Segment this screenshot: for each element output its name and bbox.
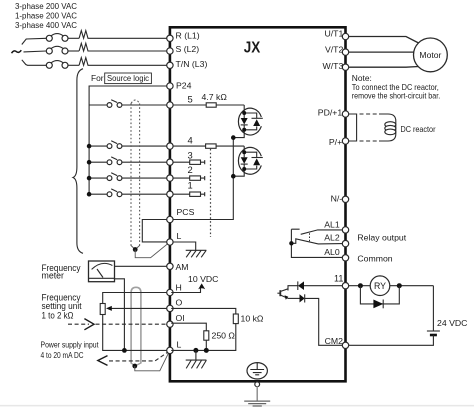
svg-text:CM2: CM2 bbox=[325, 336, 344, 346]
earth terminal circle bbox=[255, 382, 260, 387]
PCS to L link bar bbox=[142, 220, 168, 242]
svg-text:4 to 20 mA DC: 4 to 20 mA DC bbox=[41, 351, 84, 360]
wire W/T3 to motor bbox=[349, 66, 419, 69]
svg-text:1-phase 200 VAC: 1-phase 200 VAC bbox=[15, 12, 77, 21]
wire phase T input blade bbox=[22, 60, 46, 66]
wire phase R input blade bbox=[22, 38, 46, 44]
svg-text:N/-: N/- bbox=[331, 193, 343, 203]
opto-coupler PC1 bbox=[238, 108, 261, 135]
svg-text:S (L2): S (L2) bbox=[176, 44, 200, 54]
wire phase S input bbox=[24, 50, 47, 53]
fuse zigzag phase T bbox=[79, 58, 168, 66]
svg-text:AL2: AL2 bbox=[324, 233, 340, 243]
chassis ground at L1 bbox=[186, 250, 207, 257]
svg-text:O: O bbox=[176, 297, 183, 307]
svg-text:V/T2: V/T2 bbox=[325, 44, 344, 54]
svg-text:250 Ω: 250 Ω bbox=[212, 331, 236, 341]
internal 10k resistor from O bbox=[171, 308, 236, 314]
resistor R4 bbox=[171, 145, 205, 147]
dotted internal boundary line bbox=[210, 149, 212, 237]
breaker contact phase S bbox=[46, 48, 52, 54]
relay contact AL bbox=[301, 230, 343, 234]
shield 2 drain node bbox=[131, 363, 141, 366]
svg-text:AL1: AL1 bbox=[324, 219, 340, 229]
svg-text:P24: P24 bbox=[176, 80, 192, 90]
svg-text:setting unit: setting unit bbox=[42, 301, 83, 311]
opto-coupler PC2 bbox=[238, 147, 261, 174]
svg-text:PD/+1: PD/+1 bbox=[318, 108, 343, 118]
wire pot bottom to L row bbox=[103, 315, 168, 351]
svg-text:Common: Common bbox=[357, 254, 392, 264]
chassis ground at L2 bbox=[193, 348, 198, 353]
resistor R2 bbox=[171, 177, 190, 179]
svg-text:4: 4 bbox=[188, 134, 193, 145]
wire U/T1 to motor bbox=[349, 37, 419, 44]
wire shield 2 to L bbox=[135, 353, 169, 371]
resistor R3 bbox=[171, 161, 190, 163]
svg-text:U/T1: U/T1 bbox=[324, 29, 343, 39]
svg-text:W/T3: W/T3 bbox=[323, 61, 344, 71]
DC reactor coil bbox=[379, 114, 396, 141]
wire bbox=[68, 37, 79, 39]
svg-text:L: L bbox=[177, 231, 182, 241]
svg-text:10 kΩ: 10 kΩ bbox=[241, 313, 264, 323]
svg-text:3-phase 400 VAC: 3-phase 400 VAC bbox=[15, 21, 77, 30]
svg-text:10 VDC: 10 VDC bbox=[188, 274, 218, 284]
fuse zigzag phase R bbox=[79, 31, 168, 39]
inverter box JX bbox=[170, 27, 346, 381]
svg-text:H: H bbox=[176, 283, 182, 293]
switch S3 bbox=[89, 161, 107, 163]
resistor R1 bbox=[171, 193, 190, 195]
internal 250 ohm from OI bbox=[171, 323, 206, 331]
wire meter to AM bbox=[115, 265, 168, 267]
svg-text:meter: meter bbox=[42, 271, 65, 281]
shielded cable 2 loop bbox=[131, 287, 141, 363]
svg-text:AL0: AL0 bbox=[324, 247, 340, 257]
svg-text:Motor: Motor bbox=[419, 50, 441, 60]
svg-text:24 VDC: 24 VDC bbox=[437, 318, 467, 328]
diode D2 bbox=[288, 297, 300, 299]
svg-text:Power supply input: Power supply input bbox=[41, 341, 100, 350]
wire shield 1 to L bbox=[135, 243, 168, 257]
svg-text:3: 3 bbox=[188, 150, 193, 161]
svg-text:For: For bbox=[91, 73, 104, 83]
svg-text:2: 2 bbox=[188, 164, 193, 175]
svg-text:5: 5 bbox=[188, 94, 193, 105]
frequency meter bbox=[89, 261, 115, 282]
dashed arrow frequency input bbox=[68, 323, 89, 325]
wire pot top to H bbox=[103, 293, 168, 304]
svg-text:L: L bbox=[177, 339, 182, 349]
relay coil RY bbox=[370, 276, 390, 296]
svg-text:3-phase 200 VAC: 3-phase 200 VAC bbox=[15, 2, 77, 11]
svg-text:R (L1): R (L1) bbox=[176, 31, 200, 41]
svg-text:PCS: PCS bbox=[177, 207, 195, 217]
svg-text:11: 11 bbox=[334, 274, 343, 284]
switch S5 bbox=[89, 104, 107, 106]
brace grouping digital inputs bbox=[73, 69, 83, 254]
switch S4 bbox=[89, 145, 107, 147]
motor M1 bbox=[414, 38, 448, 72]
shielded cable 1 dashed loop bbox=[131, 100, 140, 104]
breaker contact phase T bbox=[46, 62, 52, 68]
switch S2 bbox=[89, 177, 107, 179]
svg-text:P/+: P/+ bbox=[329, 137, 342, 147]
svg-text:RY: RY bbox=[374, 281, 386, 291]
wire V/T2 to motor bbox=[349, 51, 414, 53]
potentiometer bbox=[100, 304, 105, 315]
fuse zigzag phase S bbox=[79, 43, 168, 51]
dashed arrow 4-20mA to L bbox=[109, 352, 168, 361]
opto common wire to PCS bbox=[171, 138, 233, 220]
short-circuit bar PD/+1 to P/+ bbox=[349, 114, 357, 141]
AC source tilde bbox=[12, 50, 22, 53]
svg-text:AM: AM bbox=[176, 262, 189, 272]
shield 1 drain node bbox=[131, 246, 140, 250]
diode D1 bbox=[298, 281, 304, 290]
right terminals bbox=[342, 33, 348, 39]
breaker contact phase R bbox=[46, 35, 52, 41]
svg-text:1 to 2 kΩ: 1 to 2 kΩ bbox=[42, 311, 74, 321]
flyback diode D3 bbox=[360, 286, 399, 304]
svg-text:4.7 kΩ: 4.7 kΩ bbox=[202, 92, 228, 102]
svg-text:1: 1 bbox=[188, 180, 193, 191]
svg-text:JX: JX bbox=[244, 40, 261, 57]
svg-text:remove the short-circuit bar.: remove the short-circuit bar. bbox=[352, 91, 440, 101]
protective earth symbol in circle bbox=[247, 363, 267, 379]
svg-text:OI: OI bbox=[176, 313, 185, 323]
svg-text:DC reactor: DC reactor bbox=[401, 124, 436, 134]
wire P24 common to switch rail bbox=[89, 86, 168, 194]
wire pot wiper from O bbox=[109, 307, 169, 309]
switch S1 bbox=[89, 193, 107, 195]
open collector output transistor bbox=[304, 285, 342, 287]
battery 24VDC bbox=[432, 286, 434, 331]
ground wire bbox=[256, 386, 258, 401]
earth ground bbox=[244, 401, 270, 406]
svg-text:T/N (L3): T/N (L3) bbox=[176, 59, 208, 69]
junction dots on switch rail bbox=[87, 144, 92, 149]
transistor Q1 bbox=[279, 290, 281, 296]
left terminals bbox=[167, 35, 173, 41]
wire L1 to chassis ground bbox=[171, 242, 196, 250]
svg-text:Relay output: Relay output bbox=[357, 233, 406, 243]
relay RY circuit bbox=[349, 285, 434, 287]
wire meter to L row bbox=[115, 279, 125, 351]
svg-text:Source logic: Source logic bbox=[107, 74, 149, 83]
dashed leads to DC reactor bbox=[360, 113, 380, 115]
